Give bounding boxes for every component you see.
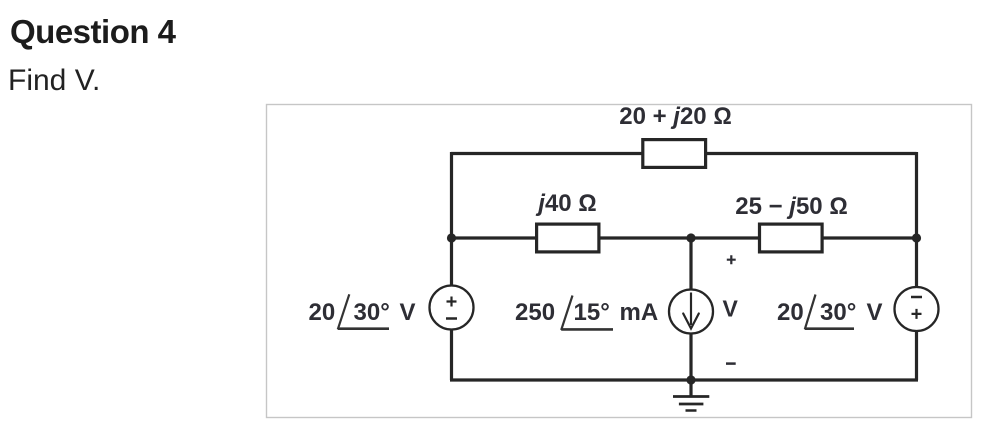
wire: middle vertical	[689, 238, 692, 380]
svg-text:mA: mA	[620, 299, 659, 326]
label 20+j20 ohm	[619, 103, 732, 130]
node C (right, middle rail)	[912, 233, 921, 242]
node A (left, middle rail)	[447, 233, 456, 242]
figure border frame	[267, 105, 972, 418]
svg-text:V: V	[867, 299, 883, 326]
svg-text:V: V	[400, 299, 416, 326]
label V with polarity (+ / -) across current source	[723, 255, 739, 363]
ground	[673, 380, 709, 411]
resistor j40 ohm (middle-left)	[537, 224, 599, 252]
current source I1 (center) with down arrow	[669, 290, 713, 334]
label j40 ohm	[535, 190, 596, 217]
voltage source V2 (right)	[895, 287, 939, 331]
label 250/15 mA (current source)	[515, 296, 658, 331]
svg-text:25 − j50 Ω: 25 − j50 Ω	[735, 193, 848, 220]
wire: top horizontal	[451, 152, 917, 155]
svg-text:j40 Ω: j40 Ω	[535, 190, 596, 217]
svg-text:Question 4: Question 4	[10, 13, 177, 50]
svg-text:250: 250	[515, 299, 555, 326]
label 20/30 V (right source)	[777, 295, 883, 330]
title "Question 4"	[10, 13, 177, 50]
svg-text:20: 20	[777, 299, 804, 326]
subtitle "Find V."	[8, 64, 100, 97]
label 20/30 V (left source)	[309, 294, 416, 329]
label 25-j50 ohm	[735, 193, 848, 220]
resistor 20+j20 ohm (top)	[643, 140, 706, 168]
wire: left vertical	[450, 152, 453, 380]
wire: right vertical	[915, 152, 918, 380]
svg-text:30°: 30°	[820, 299, 856, 326]
resistor 25-j50 ohm (middle-right)	[760, 224, 823, 252]
svg-text:20 + j20 Ω: 20 + j20 Ω	[619, 103, 732, 130]
svg-text:Find V.: Find V.	[8, 64, 100, 97]
wire: bottom horizontal	[450, 378, 918, 381]
svg-text:15°: 15°	[574, 299, 610, 326]
node B (center, middle rail)	[686, 233, 695, 242]
svg-text:V: V	[723, 296, 739, 322]
voltage source V1 (left)	[430, 286, 474, 330]
svg-text:30°: 30°	[354, 299, 390, 326]
node D (bottom, ground junction)	[686, 375, 695, 384]
svg-text:20: 20	[309, 299, 336, 326]
wire: middle horizontal	[451, 236, 917, 239]
